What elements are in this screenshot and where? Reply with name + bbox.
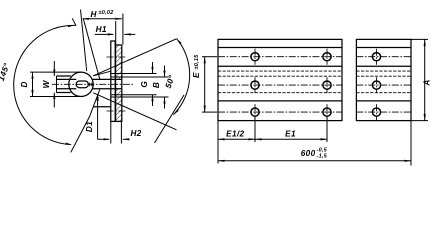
hole 4 bbox=[323, 77, 331, 93]
svg-text:A: A bbox=[422, 79, 431, 86]
dimension B bbox=[111, 66, 169, 109]
horizontal centerline bbox=[52, 83, 133, 85]
cone upper line bbox=[83, 19, 100, 79]
handle down-position edge bbox=[71, 90, 100, 153]
hole col1 extension bbox=[254, 117, 256, 143]
rail right extension bbox=[410, 121, 412, 166]
dimension H2 bbox=[98, 129, 142, 140]
dimension E1 bbox=[255, 130, 327, 141]
extension line right of H (boss face) bbox=[122, 14, 124, 45]
H2 right extension line bbox=[120, 121, 122, 144]
lower edge line bbox=[93, 106, 111, 108]
dimension 600 -0.5/-1.5 bbox=[218, 148, 411, 162]
dimension H1 bbox=[95, 25, 136, 36]
thread tick marks bbox=[89, 83, 91, 87]
svg-text:±0,15: ±0,15 bbox=[194, 54, 200, 70]
clamping rail end section bbox=[356, 39, 411, 120]
dimension H +-0.02 bbox=[83, 10, 122, 20]
svg-text:D: D bbox=[20, 81, 29, 87]
fan line to flange bbox=[93, 71, 111, 76]
svg-text:-1,5: -1,5 bbox=[317, 153, 328, 159]
hole 5 bbox=[251, 104, 259, 120]
svg-text:E1/2: E1/2 bbox=[226, 130, 244, 139]
rail left edge extension bbox=[217, 121, 219, 164]
svg-text:E1: E1 bbox=[285, 130, 296, 139]
dimension E1/2 bbox=[218, 130, 255, 141]
svg-text:H1: H1 bbox=[96, 25, 107, 34]
down-right swing line bbox=[155, 95, 185, 143]
handle up-position edge bbox=[81, 10, 87, 72]
dimension D1 bbox=[85, 94, 99, 139]
dimension W (bar width) bbox=[42, 61, 56, 108]
screw shank lower edge bbox=[92, 88, 121, 90]
hole 8 bbox=[372, 77, 380, 93]
svg-text:B: B bbox=[152, 82, 161, 88]
screw shank upper edge bbox=[92, 78, 121, 80]
dimension E +-0.15 bbox=[192, 54, 217, 112]
flange plate section bbox=[111, 41, 115, 121]
tilt arc 50 deg bbox=[173, 39, 189, 115]
hole 6 bbox=[323, 104, 331, 120]
dimension G bbox=[111, 62, 157, 106]
svg-text:H: H bbox=[91, 10, 98, 19]
hole 1 bbox=[251, 49, 259, 65]
handle bar horizontal bbox=[57, 76, 77, 93]
hole 3 bbox=[251, 77, 259, 93]
hole col2 extension bbox=[326, 117, 328, 143]
svg-text:±0,02: ±0,02 bbox=[99, 10, 115, 16]
tilt range upper line bbox=[93, 39, 176, 76]
hub slot capsule bbox=[76, 81, 88, 88]
svg-text:E: E bbox=[192, 72, 201, 78]
svg-text:H2: H2 bbox=[131, 129, 142, 138]
dimension D (hub diameter) bbox=[20, 72, 81, 96]
dimension A bbox=[411, 39, 431, 120]
svg-text:G: G bbox=[140, 81, 149, 88]
hole 7 bbox=[372, 49, 380, 65]
svg-text:600: 600 bbox=[301, 149, 316, 158]
svg-text:W: W bbox=[42, 79, 51, 88]
extension line plate right face bbox=[115, 21, 117, 46]
clamping rail main section bbox=[218, 39, 342, 120]
tilt range lower line bbox=[93, 93, 176, 130]
hole 2 bbox=[323, 49, 331, 65]
arc end extension tick bbox=[72, 18, 76, 25]
flange bottom hole centerline bbox=[107, 110, 126, 112]
hole 9 bbox=[372, 104, 380, 120]
flange top hole centerline bbox=[107, 56, 126, 58]
H2 left extension line bbox=[110, 122, 112, 144]
svg-text:D1: D1 bbox=[85, 121, 94, 132]
hub ball circle bbox=[69, 72, 93, 96]
boss plate section bbox=[116, 45, 122, 121]
swing arc 145 deg with arrowheads bbox=[14, 25, 76, 145]
